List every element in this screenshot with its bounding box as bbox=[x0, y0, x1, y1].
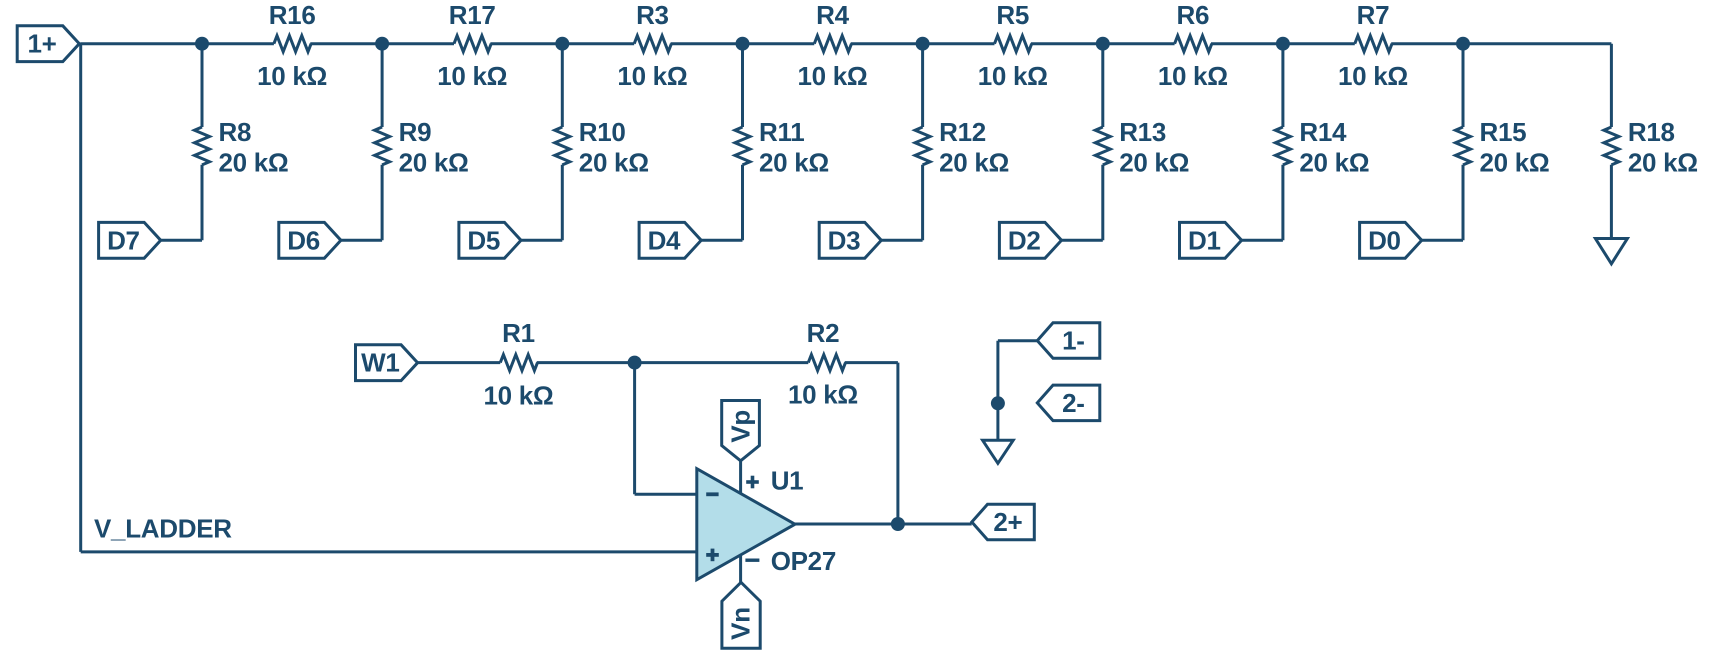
wire bbox=[1101, 44, 1104, 127]
wire bbox=[490, 42, 634, 45]
svg-text:R18: R18 bbox=[1628, 117, 1675, 147]
wire Vp pin bbox=[739, 461, 742, 494]
wire bbox=[201, 44, 204, 127]
svg-text:R2: R2 bbox=[807, 318, 840, 348]
svg-text:10 kΩ: 10 kΩ bbox=[617, 61, 687, 91]
node D7 junction bbox=[195, 37, 209, 51]
wire bbox=[418, 361, 501, 364]
svg-text:20 kΩ: 20 kΩ bbox=[1119, 148, 1189, 178]
resistor R7 bbox=[1355, 36, 1392, 52]
terminal D3 bbox=[819, 222, 881, 258]
wire bbox=[1031, 42, 1175, 45]
svg-text:10 kΩ: 10 kΩ bbox=[437, 61, 507, 91]
op-amp non-inverting input mark bbox=[706, 549, 719, 562]
terminal D0 bbox=[1360, 222, 1422, 258]
svg-text:D1: D1 bbox=[1188, 225, 1221, 255]
svg-text:R14: R14 bbox=[1299, 117, 1347, 147]
resistor R9 bbox=[375, 127, 390, 165]
wire V_LADDER vertical bbox=[79, 44, 82, 552]
ground (output reference) bbox=[983, 440, 1014, 463]
wire bbox=[1211, 42, 1355, 45]
wire bbox=[1610, 165, 1613, 239]
svg-text:10 kΩ: 10 kΩ bbox=[257, 61, 327, 91]
wire bbox=[1462, 44, 1465, 127]
wire bbox=[881, 239, 922, 242]
resistor R13 bbox=[1095, 127, 1110, 165]
svg-text:20 kΩ: 20 kΩ bbox=[579, 148, 649, 178]
svg-text:D4: D4 bbox=[648, 225, 681, 255]
wire bbox=[80, 42, 274, 45]
terminal W1 bbox=[356, 345, 418, 381]
resistor R2 bbox=[808, 355, 845, 371]
svg-text:D7: D7 bbox=[107, 225, 140, 255]
terminal D4 bbox=[639, 222, 701, 258]
svg-text:10 kΩ: 10 kΩ bbox=[978, 61, 1048, 91]
svg-text:R6: R6 bbox=[1176, 0, 1209, 30]
resistor R1 bbox=[500, 355, 537, 371]
svg-text:R9: R9 bbox=[399, 117, 432, 147]
svg-text:10 kΩ: 10 kΩ bbox=[798, 61, 868, 91]
wire bbox=[161, 239, 202, 242]
svg-text:20 kΩ: 20 kΩ bbox=[1480, 148, 1550, 178]
wire bbox=[635, 493, 698, 496]
svg-text:R8: R8 bbox=[219, 117, 252, 147]
svg-text:D3: D3 bbox=[828, 225, 861, 255]
node reference junction bbox=[991, 396, 1005, 410]
resistor R12 bbox=[915, 127, 930, 165]
wire bbox=[1061, 239, 1103, 242]
svg-text:W1: W1 bbox=[361, 348, 399, 378]
svg-text:R3: R3 bbox=[636, 0, 669, 30]
svg-text:20 kΩ: 20 kΩ bbox=[939, 148, 1009, 178]
node D6 junction bbox=[375, 37, 389, 51]
svg-text:20 kΩ: 20 kΩ bbox=[759, 148, 829, 178]
terminal Vn bbox=[722, 582, 760, 648]
wire bbox=[310, 42, 454, 45]
terminal Vp bbox=[722, 401, 760, 461]
svg-text:R10: R10 bbox=[579, 117, 626, 147]
wire bbox=[1281, 165, 1284, 241]
svg-text:R7: R7 bbox=[1357, 0, 1390, 30]
resistor R18 bbox=[1604, 127, 1619, 165]
svg-text:D5: D5 bbox=[467, 225, 500, 255]
svg-text:D0: D0 bbox=[1368, 225, 1401, 255]
resistor R3 bbox=[634, 36, 671, 52]
node summing junction bbox=[628, 356, 642, 370]
wire bbox=[921, 165, 924, 241]
node output junction bbox=[891, 517, 905, 531]
wire bbox=[1422, 239, 1463, 242]
op-amp inverting input mark bbox=[706, 492, 718, 496]
terminal D2 bbox=[999, 222, 1061, 258]
resistor R15 bbox=[1456, 127, 1471, 165]
svg-text:2+: 2+ bbox=[993, 507, 1022, 537]
svg-text:20 kΩ: 20 kΩ bbox=[1299, 148, 1369, 178]
svg-text:R12: R12 bbox=[939, 117, 986, 147]
svg-text:10 kΩ: 10 kΩ bbox=[484, 381, 554, 411]
wire bbox=[521, 239, 562, 242]
wire bbox=[998, 339, 1037, 342]
resistor R11 bbox=[735, 127, 750, 165]
wire bbox=[201, 165, 204, 241]
wire bbox=[1391, 42, 1611, 45]
wire bbox=[381, 165, 384, 241]
svg-text:D2: D2 bbox=[1008, 225, 1041, 255]
wire bbox=[671, 42, 815, 45]
wire bbox=[635, 361, 809, 364]
wire bbox=[741, 165, 744, 241]
svg-text:U1: U1 bbox=[771, 465, 804, 495]
wire bbox=[561, 44, 564, 127]
node D1 junction bbox=[1276, 37, 1290, 51]
wire bbox=[921, 44, 924, 127]
pin &#8722; (V&#8722; supply pin mark) bbox=[745, 559, 759, 562]
svg-text:10 kΩ: 10 kΩ bbox=[788, 380, 858, 410]
wire bbox=[1610, 44, 1613, 127]
wire bbox=[851, 42, 995, 45]
wire bbox=[1462, 165, 1465, 241]
svg-text:10 kΩ: 10 kΩ bbox=[1158, 61, 1228, 91]
svg-text:Vp: Vp bbox=[725, 410, 755, 443]
wire bbox=[381, 44, 384, 127]
svg-text:R15: R15 bbox=[1480, 117, 1527, 147]
terminal D7 bbox=[99, 222, 161, 258]
wire bbox=[845, 361, 898, 364]
svg-text:R17: R17 bbox=[449, 0, 496, 30]
wire bbox=[1101, 165, 1104, 241]
node D0 junction bbox=[1456, 37, 1470, 51]
wire bbox=[896, 363, 899, 524]
svg-text:10 kΩ: 10 kΩ bbox=[1338, 61, 1408, 91]
wire Vn pin bbox=[739, 555, 742, 582]
terminal D5 bbox=[459, 222, 521, 258]
resistor R17 bbox=[454, 36, 491, 52]
wire bbox=[795, 523, 972, 526]
ground (ladder termination) bbox=[1595, 239, 1627, 264]
op-amp U1 (OP27) bbox=[697, 469, 795, 580]
wire V_LADDER horizontal bbox=[81, 550, 698, 553]
resistor R6 bbox=[1175, 36, 1212, 52]
resistor R4 bbox=[814, 36, 851, 52]
terminal 1- bbox=[1037, 323, 1100, 359]
resistor R14 bbox=[1275, 127, 1290, 165]
svg-text:R4: R4 bbox=[816, 0, 849, 30]
terminal D6 bbox=[279, 222, 341, 258]
resistor R16 bbox=[274, 36, 311, 52]
resistor R10 bbox=[555, 127, 570, 165]
terminal 2+ bbox=[972, 504, 1035, 540]
pin + (V+ supply pin mark) bbox=[746, 476, 759, 489]
resistor R5 bbox=[995, 36, 1032, 52]
wire bbox=[1242, 239, 1283, 242]
wire bbox=[561, 165, 564, 241]
wire bbox=[341, 239, 382, 242]
wire bbox=[741, 44, 744, 127]
svg-text:20 kΩ: 20 kΩ bbox=[399, 148, 469, 178]
svg-text:20 kΩ: 20 kΩ bbox=[1628, 148, 1698, 178]
svg-text:1+: 1+ bbox=[27, 29, 56, 59]
svg-text:R16: R16 bbox=[269, 0, 316, 30]
node D4 junction bbox=[736, 37, 750, 51]
svg-text:R1: R1 bbox=[502, 318, 535, 348]
svg-text:D6: D6 bbox=[287, 225, 320, 255]
svg-text:OP27: OP27 bbox=[771, 546, 836, 576]
svg-text:R13: R13 bbox=[1119, 117, 1166, 147]
terminal D1 bbox=[1180, 222, 1242, 258]
wire bbox=[1281, 44, 1284, 127]
resistor R8 bbox=[195, 127, 210, 165]
node D5 junction bbox=[555, 37, 569, 51]
node D3 junction bbox=[916, 37, 930, 51]
wire bbox=[996, 341, 999, 441]
svg-text:2-: 2- bbox=[1062, 388, 1085, 418]
svg-text:V_LADDER: V_LADDER bbox=[94, 514, 232, 544]
node D2 junction bbox=[1096, 37, 1110, 51]
svg-text:20 kΩ: 20 kΩ bbox=[219, 148, 289, 178]
svg-text:R5: R5 bbox=[996, 0, 1029, 30]
svg-text:R11: R11 bbox=[759, 117, 804, 147]
wire bbox=[537, 361, 635, 364]
terminal 2- bbox=[1037, 385, 1100, 421]
wire bbox=[633, 363, 636, 495]
svg-text:1-: 1- bbox=[1062, 326, 1085, 356]
terminal 1+ bbox=[17, 26, 79, 62]
svg-text:Vn: Vn bbox=[726, 607, 756, 640]
wire bbox=[701, 239, 742, 242]
